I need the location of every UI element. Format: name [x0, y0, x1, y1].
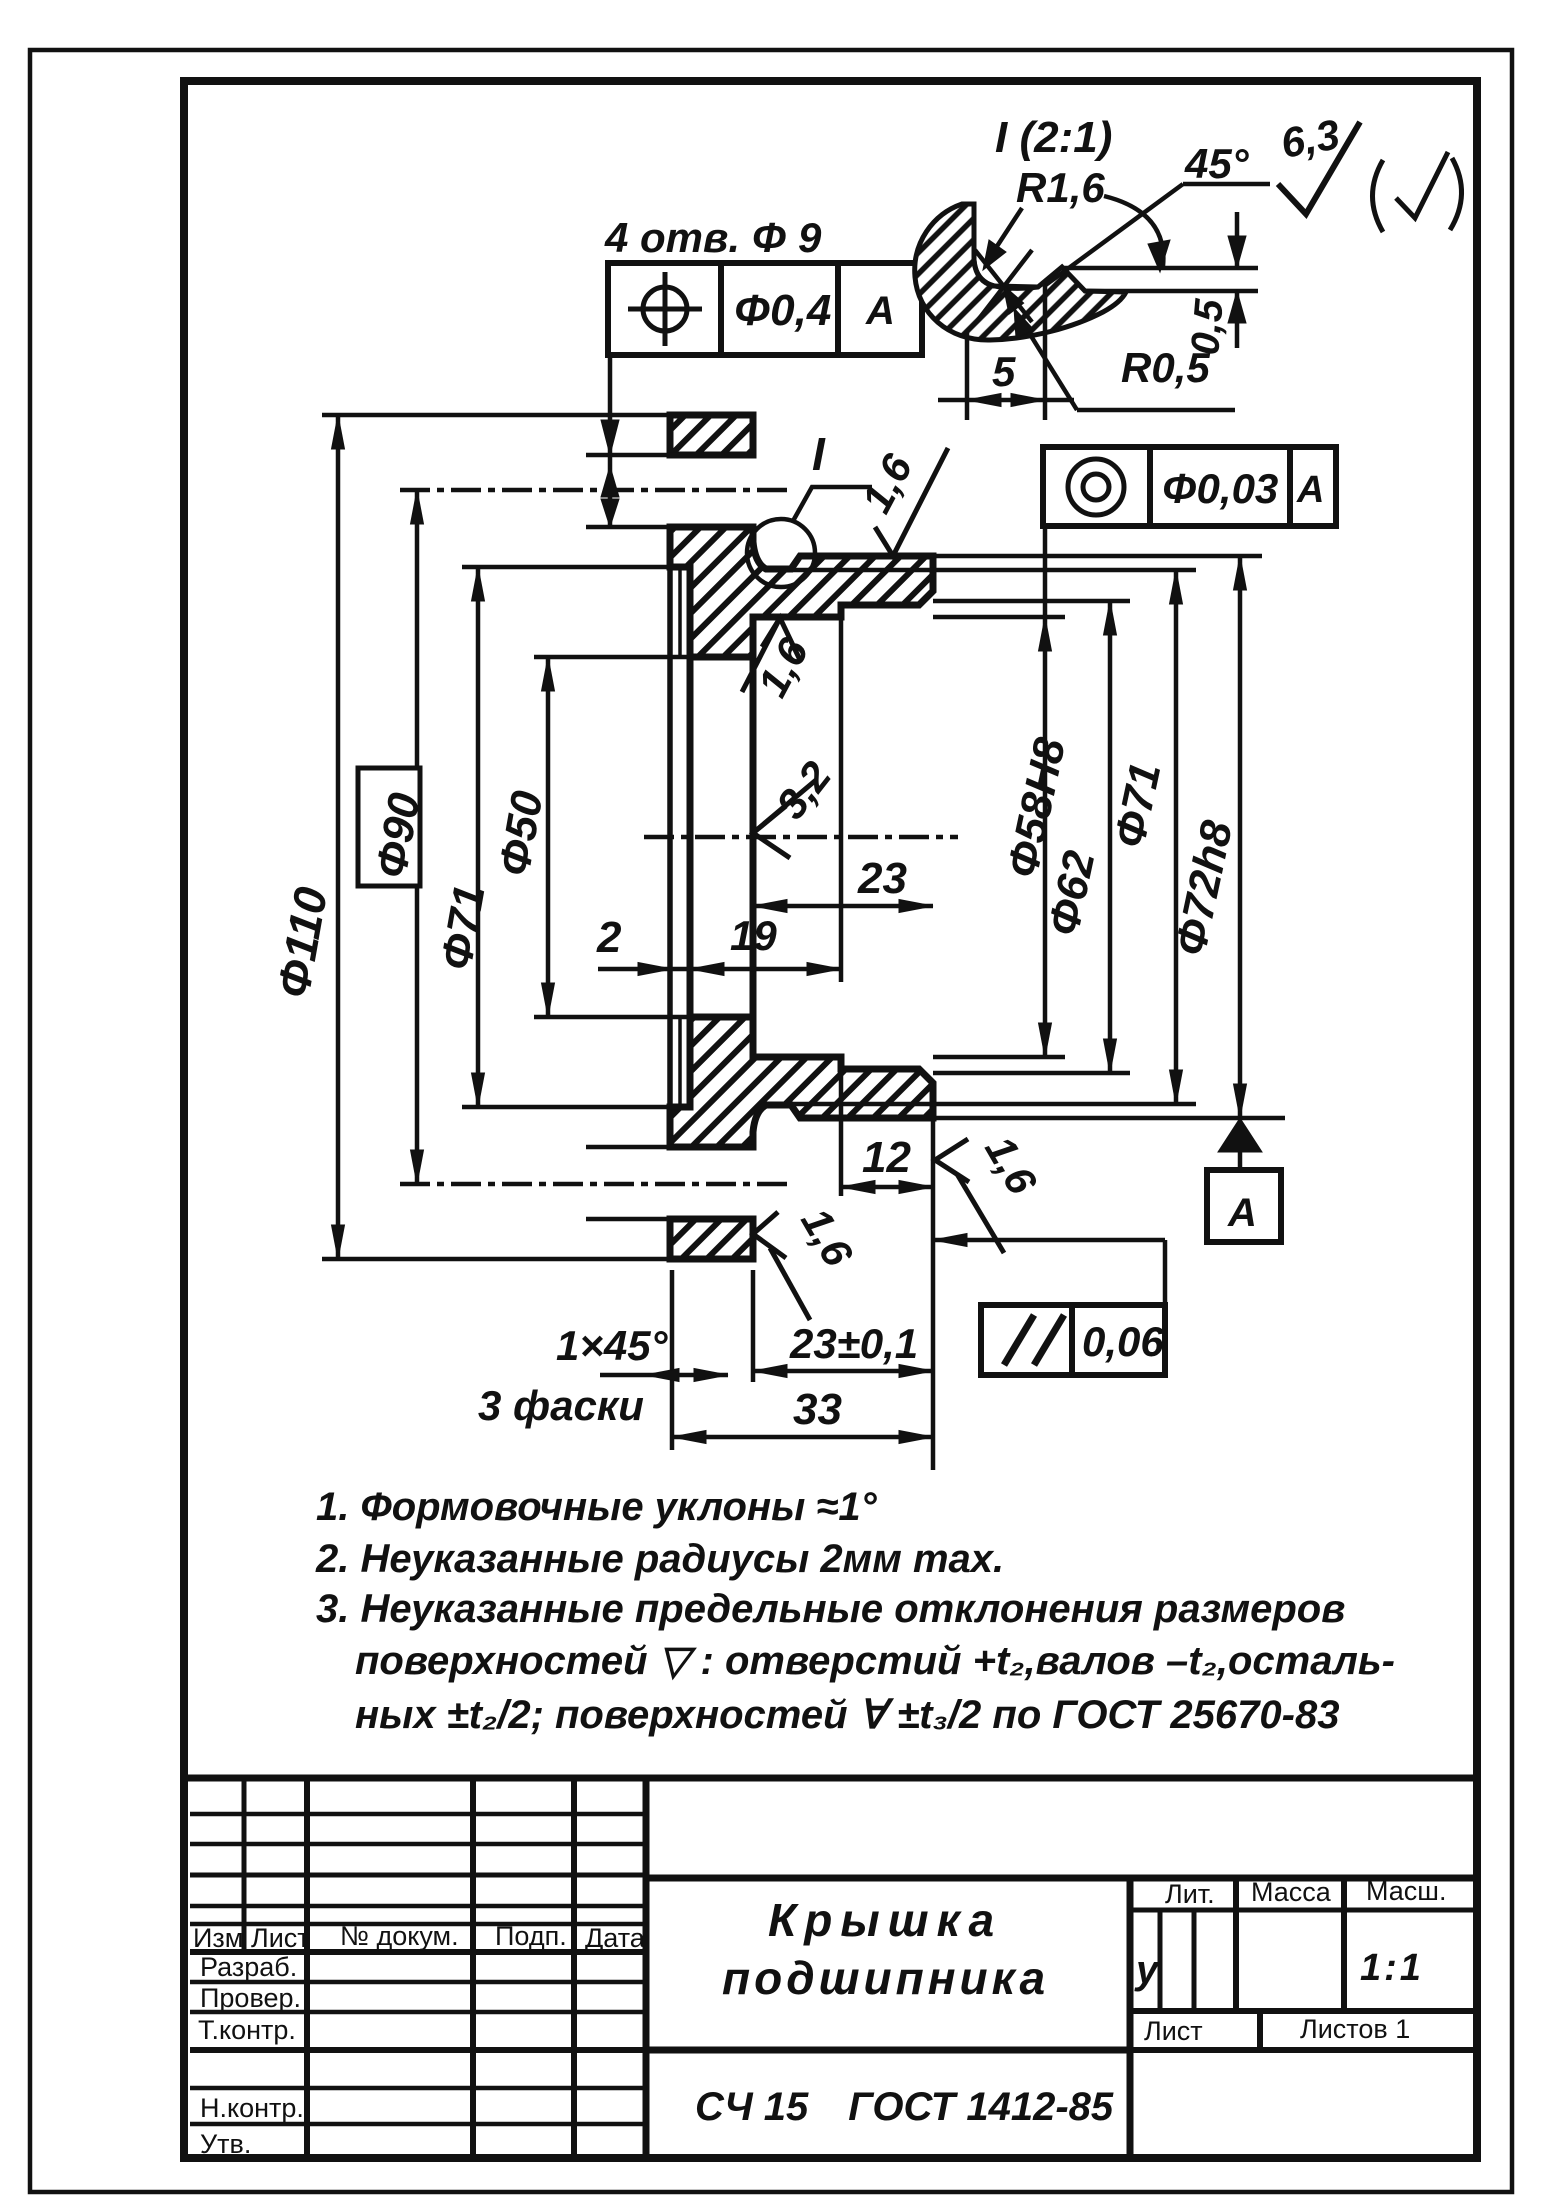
upper body section (flange web + boss wall, hatched)	[670, 527, 933, 657]
bolt hole axis lower centerline	[400, 1182, 792, 1187]
roughness 1,6 (boss outer surface)	[875, 448, 948, 556]
dimension 23±0,1	[753, 1270, 933, 1382]
svg-text:СЧ 15 ГОСТ 1412-85: СЧ 15 ГОСТ 1412-85	[695, 2085, 1114, 2129]
svg-text:Масса: Масса	[1251, 1877, 1332, 1907]
svg-text:№ докум.: № докум.	[340, 1921, 459, 1951]
recess chamfer edge lines (x=680)	[678, 567, 682, 657]
svg-text:Разраб.: Разраб.	[200, 1952, 297, 1982]
dimension Ф72h8	[1234, 556, 1247, 1118]
groove surface extension (to Ф71 dim)	[791, 568, 1196, 573]
title block	[188, 1778, 1477, 2158]
coaxiality tolerance frame	[1043, 447, 1336, 526]
dimension Ф71 (left recess)	[472, 567, 485, 1107]
svg-text:1. Формовочные уклоны ≈1°: 1. Формовочные уклоны ≈1°	[316, 1485, 878, 1529]
main axis centerline	[644, 835, 958, 840]
svg-text:Провер.: Провер.	[200, 1983, 301, 2013]
svg-text:Листов 1: Листов 1	[1300, 2014, 1410, 2044]
svg-text:0,06: 0,06	[1082, 1318, 1164, 1365]
parallelism tolerance frame	[933, 1234, 1165, 1376]
bolt hole axis upper centerline	[400, 488, 792, 493]
dimension Ф62	[1104, 601, 1117, 1073]
svg-text:ных ±t₂/2; поверхностей ∀ ±t: ных ±t₂/2; поверхностей ∀ ±t₃/2 по ГОСТ …	[355, 1693, 1339, 1737]
svg-text:Утв.: Утв.	[200, 2129, 251, 2159]
svg-text:А: А	[1296, 469, 1324, 511]
svg-text:поверхностей ▽ : отверстий +t: поверхностей ▽ : отверстий +t₂,валов –t₂…	[355, 1639, 1395, 1683]
main section view: bearing cap	[322, 415, 1285, 1259]
svg-text:Φ0,4: Φ0,4	[734, 286, 831, 335]
svg-text:Дата: Дата	[585, 1923, 646, 1953]
svg-text:3 фаски: 3 фаски	[478, 1382, 644, 1429]
svg-text:2. Неуказанные радиусы 2мм: 2. Неуказанные радиусы 2мм mах.	[315, 1537, 1004, 1581]
roughness 1,6 (flange face)	[753, 1212, 810, 1320]
svg-text:Лист: Лист	[1144, 2016, 1203, 2046]
svg-text:Лист: Лист	[251, 1923, 310, 1953]
svg-text:33: 33	[793, 1385, 842, 1434]
svg-text:3. Неуказанные предельные от: 3. Неуказанные предельные отклонения раз…	[316, 1587, 1345, 1631]
svg-text:Масш.: Масш.	[1366, 1876, 1446, 1906]
boss outer surface extension (to Ф72h8 dim and datum)	[933, 554, 1262, 559]
svg-text:45°: 45°	[1184, 140, 1250, 187]
Ф110 extension lines	[322, 413, 670, 418]
svg-text:19: 19	[730, 912, 777, 959]
detail I hook-shaped section (hatched)	[915, 204, 1258, 340]
detail dim 5	[938, 284, 1074, 420]
sheet roughness (v) in parentheses	[1373, 152, 1462, 232]
svg-text:R0,5: R0,5	[1121, 344, 1210, 391]
dimension 2 and 19 (shared line)	[598, 963, 841, 976]
dimension Ф90 (boxed, bolt circle)	[358, 490, 424, 1184]
extension line from bore step for 19 dim	[839, 617, 844, 982]
groove floor line	[974, 260, 1038, 287]
dimension Ф50	[542, 657, 555, 1017]
svg-text:А: А	[1227, 1191, 1257, 1235]
svg-text:I (2:1): I (2:1)	[995, 113, 1112, 162]
dimension 33	[672, 1270, 933, 1450]
dimension 23 (top)	[753, 900, 933, 913]
projected circle: recess opening edge (x=670 across void)	[667, 567, 673, 1107]
Ф71 recess extension lines	[462, 565, 690, 570]
detail I leader	[793, 487, 872, 521]
dimension Ф58H8	[1039, 526, 1052, 1057]
roughness 3,2 (hole face)	[753, 780, 816, 858]
svg-text:23: 23	[857, 854, 907, 903]
svg-text:6,3: 6,3	[1277, 110, 1343, 166]
projected circle: hole exit edge (x=753 across void)	[750, 657, 757, 1017]
flange lower rim (hatched)	[670, 1219, 753, 1259]
svg-text:Изм: Изм	[193, 1923, 243, 1953]
svg-text:подшипника: подшипника	[722, 1952, 1049, 2004]
bolt hole upper edges	[586, 453, 753, 458]
svg-text:I: I	[812, 428, 826, 480]
boss surface lines right of detail (0,5 step)	[1062, 266, 1258, 271]
bolt hole lower edges	[586, 1145, 753, 1150]
svg-text:23±0,1: 23±0,1	[789, 1320, 918, 1367]
svg-text:1×45°: 1×45°	[556, 1322, 669, 1369]
svg-text:1:1: 1:1	[1360, 1947, 1424, 1989]
inner drawing frame	[184, 81, 1477, 2158]
datum A triangle and frame	[1207, 1118, 1281, 1242]
lower body section (flange web + boss wall, hatched)	[670, 1017, 933, 1147]
svg-text:2: 2	[596, 913, 622, 962]
svg-text:5: 5	[992, 348, 1016, 395]
Ф62 surface + extension	[933, 599, 1130, 604]
svg-text:Подп.: Подп.	[495, 1921, 567, 1951]
svg-text:12: 12	[862, 1133, 911, 1182]
svg-text:у: у	[1134, 1948, 1160, 1992]
Ф58H8 surface extension	[933, 615, 1065, 620]
svg-text:4 отв. Φ 9: 4 отв. Φ 9	[604, 214, 822, 261]
svg-text:R1,6: R1,6	[1016, 164, 1105, 211]
detail I circle on main view	[747, 519, 815, 587]
svg-text:Φ0,03: Φ0,03	[1162, 465, 1278, 512]
dimension 12	[841, 1057, 933, 1470]
chamfer dimension 1x45, 3 places	[600, 1369, 728, 1382]
roughness 1,6 (end face)	[935, 1139, 1004, 1253]
Ф50 hole edge extension lines	[534, 655, 690, 660]
svg-text:Т.контр.: Т.контр.	[198, 2015, 296, 2045]
svg-text:Крышка: Крышка	[768, 1894, 1002, 1946]
roughness 1,6 (bore surface)	[742, 618, 800, 692]
detail dim 0,5	[1228, 212, 1246, 348]
svg-text:Н.контр.: Н.контр.	[200, 2093, 304, 2123]
svg-text:А: А	[865, 289, 895, 333]
dimension Ф71 (groove)	[1170, 570, 1183, 1104]
dimension Ф110	[332, 415, 345, 1259]
technical notes	[315, 1485, 1395, 1737]
svg-text:Лит.: Лит.	[1165, 1879, 1215, 1909]
flange upper rim (hatched)	[670, 415, 753, 455]
projected circle: recess edge (x=690 across void)	[687, 657, 694, 1017]
